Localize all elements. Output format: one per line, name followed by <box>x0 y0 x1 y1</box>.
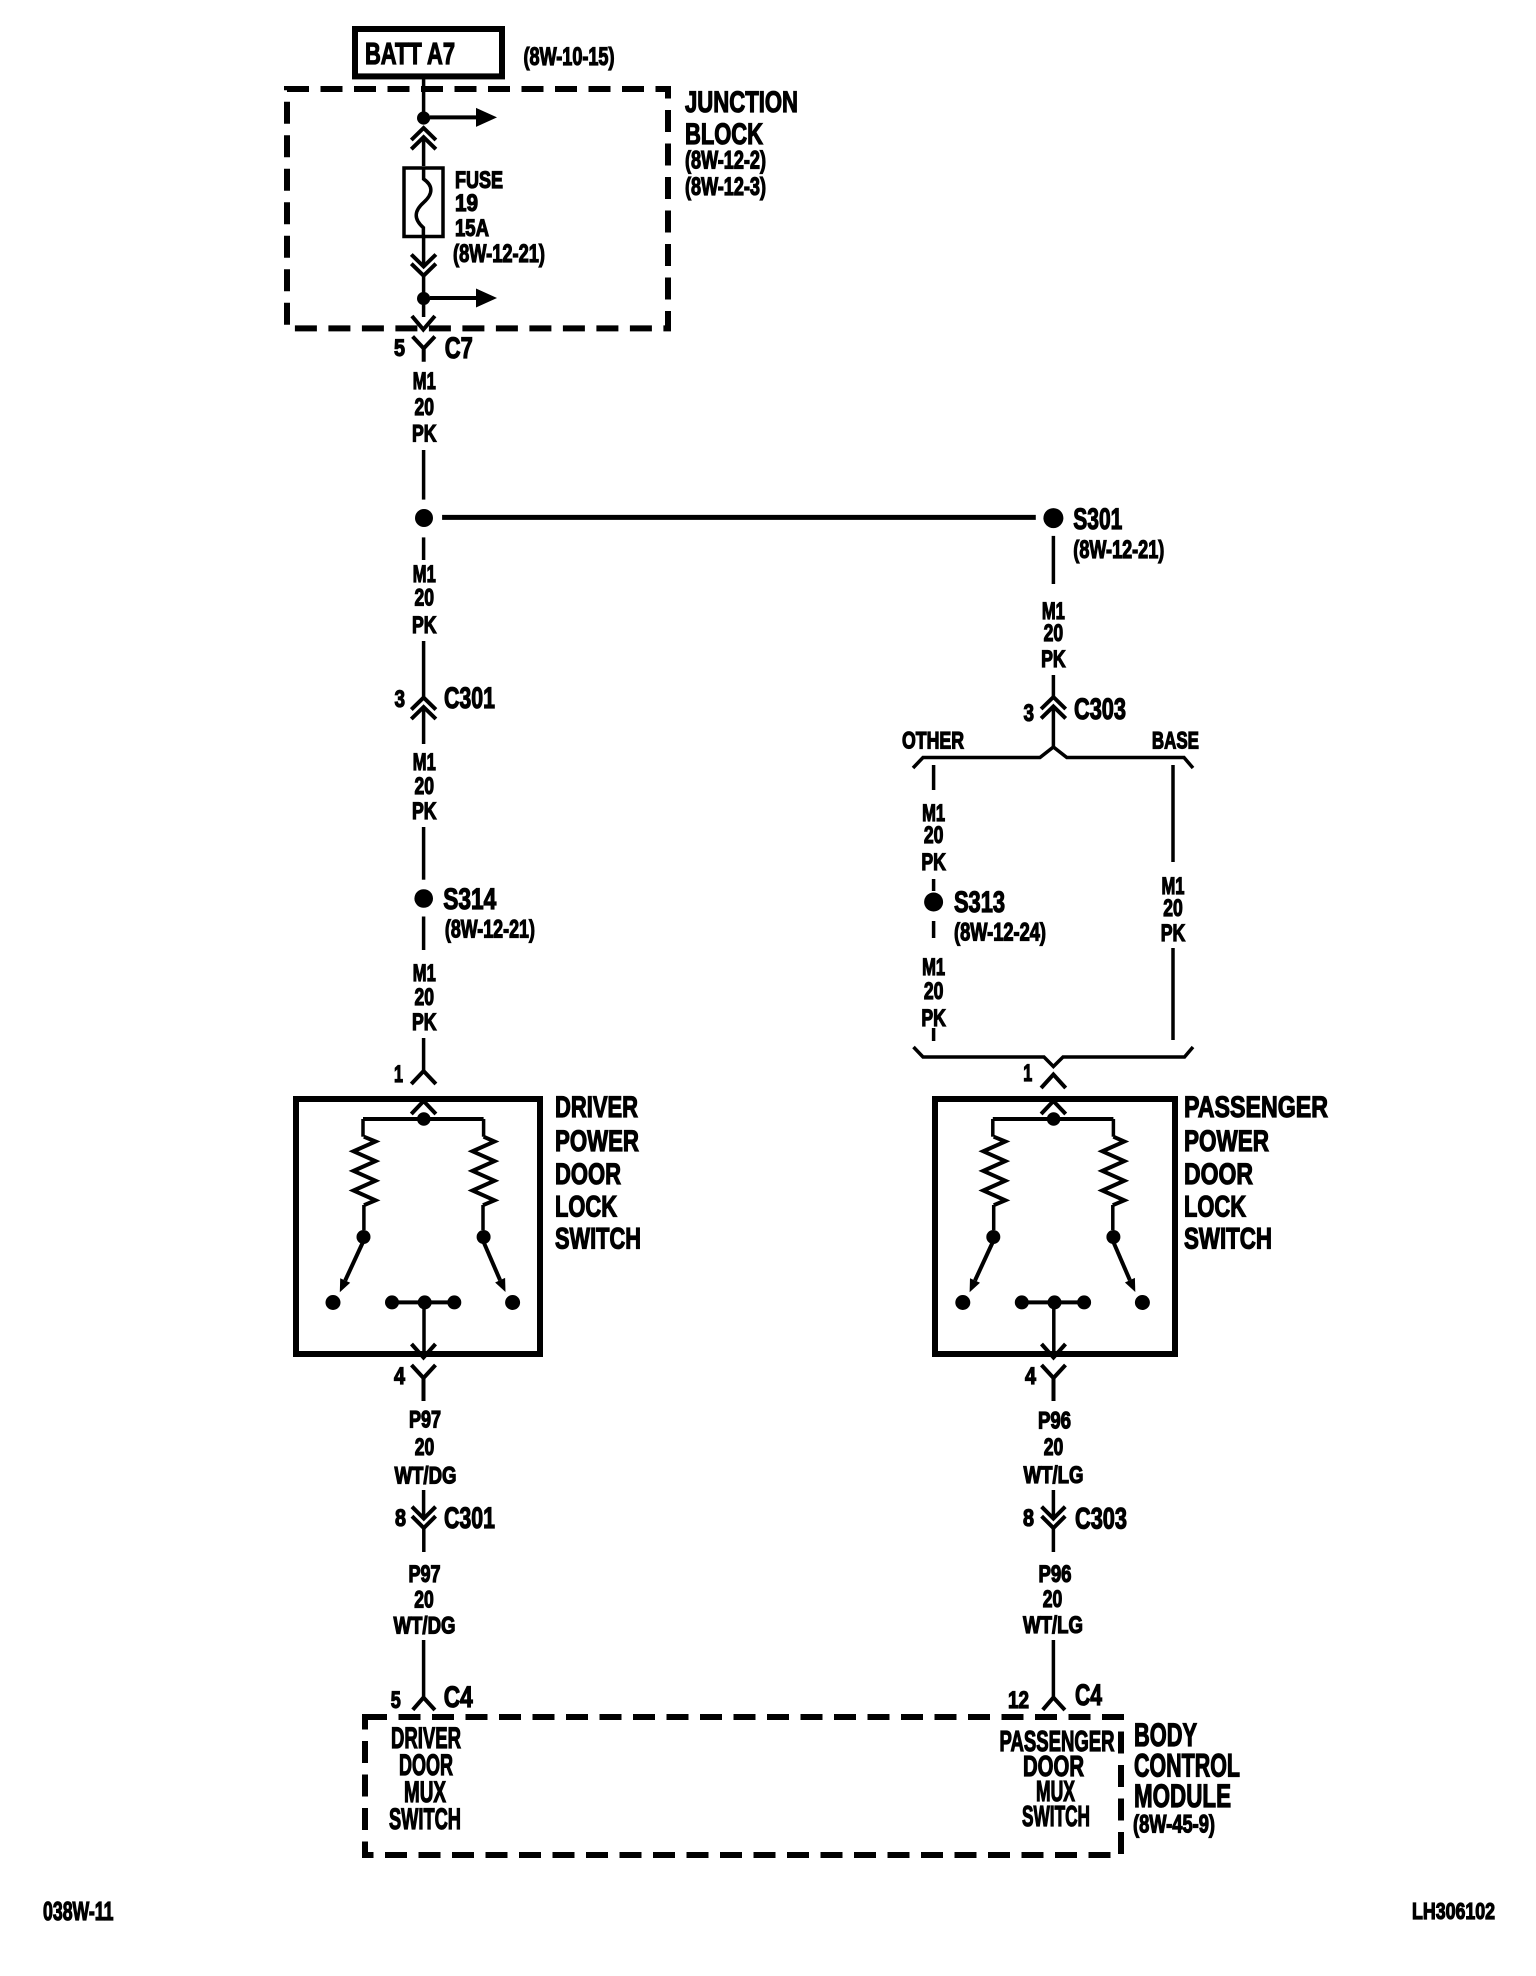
connector chevrons (double, up) below node <box>411 128 436 149</box>
wire OTHER branch segment 3 <box>932 921 936 938</box>
wire below S314 <box>422 917 426 951</box>
svg-text:(8W-10-15): (8W-10-15) <box>524 43 615 71</box>
svg-text:PASSENGER: PASSENGER <box>1184 1091 1328 1124</box>
resistor (driver unlock side) <box>473 1137 495 1206</box>
svg-text:(8W-45-9): (8W-45-9) <box>1133 1811 1215 1839</box>
junction splice dot at bus <box>415 509 433 527</box>
svg-text:20: 20 <box>415 585 435 612</box>
stationary contact dot far-left <box>955 1295 970 1310</box>
svg-text:C303: C303 <box>1074 693 1126 726</box>
svg-text:20: 20 <box>415 773 435 800</box>
connector C7 male half (V at box edge) <box>412 316 435 330</box>
wire to junction block exit <box>422 305 426 317</box>
stationary contact dot far-right <box>1135 1295 1150 1310</box>
wire joining center contacts <box>1022 1300 1084 1304</box>
connector C4 male half (passenger) <box>1043 1698 1065 1711</box>
battery feed box BATT A7 <box>355 29 502 76</box>
wire below C303 to options brace <box>1052 708 1056 749</box>
node dot (passenger switch common) <box>1047 1112 1061 1126</box>
connector pin 4 Y <box>1042 1365 1066 1401</box>
wire to C4 <box>422 1640 426 1698</box>
wire center contact to box bottom <box>422 1302 426 1354</box>
wire to fuse <box>422 137 426 166</box>
svg-text:P96: P96 <box>1039 1561 1072 1588</box>
wire P97 segment <box>422 1490 426 1518</box>
svg-text:DOOR: DOOR <box>555 1158 621 1191</box>
svg-text:PK: PK <box>921 849 946 876</box>
contact dot left <box>986 1230 1000 1244</box>
driver switch entry chevron (inside box) <box>411 1101 436 1114</box>
svg-text:SWITCH: SWITCH <box>555 1223 641 1256</box>
svg-text:DRIVER: DRIVER <box>555 1091 638 1124</box>
svg-text:PK: PK <box>921 1005 946 1032</box>
svg-text:S301: S301 <box>1073 503 1122 536</box>
wire to C301 <box>422 641 426 698</box>
passenger switch entry chevron (inside box) <box>1041 1101 1066 1114</box>
svg-text:20: 20 <box>1044 1434 1064 1461</box>
connector C303 chevrons (double, down) <box>1042 1507 1066 1528</box>
wire BATT A7 to node <box>422 79 426 112</box>
node dot (junction block feed) <box>417 111 430 124</box>
svg-text:C4: C4 <box>444 1681 473 1714</box>
wire right drop <box>482 1119 486 1137</box>
svg-text:M1: M1 <box>413 749 436 776</box>
svg-text:8: 8 <box>1023 1505 1034 1532</box>
svg-text:C7: C7 <box>445 332 473 365</box>
passenger power door lock switch box <box>935 1099 1175 1354</box>
fuse 19 body <box>404 168 443 237</box>
svg-text:20: 20 <box>415 394 435 421</box>
wire to left contact <box>362 1205 366 1230</box>
wire BASE branch lower <box>1171 948 1175 1040</box>
svg-text:WT/DG: WT/DG <box>395 1463 457 1490</box>
svg-text:SWITCH: SWITCH <box>389 1803 461 1836</box>
wire fuse to chevrons <box>422 238 426 265</box>
wire below C301 <box>422 709 426 744</box>
svg-text:P97: P97 <box>409 1561 441 1588</box>
svg-text:3: 3 <box>395 686 406 713</box>
svg-text:(8W-12-21): (8W-12-21) <box>1073 536 1164 564</box>
switch arm right (arrow) <box>484 1242 501 1280</box>
wire left drop <box>361 1119 365 1137</box>
svg-text:PK: PK <box>412 421 437 448</box>
contact dot right <box>477 1230 491 1244</box>
svg-text:WT/LG: WT/LG <box>1024 1462 1084 1489</box>
switch arm left (arrow) <box>975 1242 993 1281</box>
svg-text:BATT A7: BATT A7 <box>365 36 455 71</box>
body control module dashed box <box>365 1717 1121 1855</box>
svg-text:PK: PK <box>412 798 437 825</box>
wire below S301 <box>1052 536 1056 584</box>
svg-text:BASE: BASE <box>1152 728 1199 755</box>
wire center contact to box bottom <box>1052 1302 1056 1354</box>
wire left drop <box>991 1119 995 1137</box>
resistor (passenger lock side) <box>983 1137 1005 1206</box>
svg-text:M1: M1 <box>413 960 436 987</box>
svg-text:(8W-12-21): (8W-12-21) <box>445 916 535 944</box>
passenger switch entry chevron (outside) <box>1041 1075 1066 1089</box>
splice S313 dot <box>924 893 943 912</box>
svg-text:OTHER: OTHER <box>902 728 964 755</box>
svg-text:SWITCH: SWITCH <box>1022 1801 1090 1833</box>
stationary contact dot far-left <box>326 1295 341 1310</box>
splice S314 dot <box>414 889 433 908</box>
svg-text:(8W-12-3): (8W-12-3) <box>685 173 766 201</box>
svg-text:20: 20 <box>1163 895 1183 922</box>
svg-text:20: 20 <box>924 978 944 1005</box>
wire BASE branch upper <box>1171 765 1175 862</box>
svg-text:C303: C303 <box>1075 1503 1127 1536</box>
wire to left contact <box>992 1205 996 1230</box>
svg-text:PK: PK <box>1041 646 1066 673</box>
switch arm right (arrow) <box>1113 1242 1130 1280</box>
splice S301 dot <box>1043 508 1063 528</box>
svg-text:038W-11: 038W-11 <box>43 1896 114 1926</box>
svg-text:20: 20 <box>1044 620 1064 647</box>
svg-text:DOOR: DOOR <box>1184 1158 1253 1191</box>
node dot (driver switch common) <box>417 1112 431 1126</box>
svg-text:PK: PK <box>1161 920 1186 947</box>
svg-text:(8W-12-21): (8W-12-21) <box>453 240 545 268</box>
svg-text:20: 20 <box>1043 1586 1063 1613</box>
wire OTHER branch segment 2 <box>932 879 936 891</box>
node dot (fuse output) <box>417 292 430 305</box>
svg-text:4: 4 <box>394 1363 406 1390</box>
driver switch entry chevron (outside) <box>411 1071 436 1084</box>
connector C303 chevrons (double, up) <box>1041 697 1066 718</box>
switch arm left (arrow) <box>345 1242 363 1281</box>
options brace top <box>913 747 1193 768</box>
svg-text:WT/DG: WT/DG <box>394 1613 456 1640</box>
svg-text:20: 20 <box>415 1434 435 1461</box>
wire OTHER branch segment 4 <box>932 1028 936 1041</box>
wire joining center contacts <box>392 1300 454 1304</box>
svg-text:1: 1 <box>394 1061 403 1088</box>
connector chevrons (double, down) <box>411 255 436 276</box>
wire right drop <box>1112 1119 1116 1137</box>
svg-text:(8W-12-24): (8W-12-24) <box>954 919 1046 947</box>
svg-text:LOCK: LOCK <box>555 1191 617 1224</box>
connector C7 female half (Y) <box>413 337 435 362</box>
svg-text:P97: P97 <box>409 1407 441 1434</box>
connector pin 4 V (at box edge) <box>412 1344 436 1358</box>
stationary contact dots center row <box>1015 1295 1029 1309</box>
arrow to other circuits (bottom) <box>430 296 477 300</box>
svg-text:SWITCH: SWITCH <box>1184 1223 1272 1256</box>
wire to S314 <box>422 827 426 880</box>
driver power door lock switch box <box>296 1099 540 1354</box>
svg-text:C4: C4 <box>1075 1679 1102 1712</box>
svg-text:PK: PK <box>412 1009 437 1036</box>
svg-text:20: 20 <box>415 984 435 1011</box>
wire to lower node <box>422 276 426 292</box>
connector pin 4 V (at box edge) <box>1042 1344 1066 1358</box>
svg-text:19: 19 <box>455 190 478 217</box>
svg-text:8: 8 <box>395 1505 406 1532</box>
contact dot left <box>357 1230 371 1244</box>
svg-text:15A: 15A <box>455 215 489 242</box>
wire to right contact <box>481 1205 485 1230</box>
resistor (driver lock side) <box>354 1137 376 1206</box>
wire below C301 <box>422 1528 426 1552</box>
contact dot right <box>1106 1230 1120 1244</box>
svg-text:S314: S314 <box>443 883 496 916</box>
wire below C303 <box>1052 1528 1056 1552</box>
arrow to other circuits (top) <box>430 115 477 119</box>
svg-text:MODULE: MODULE <box>1134 1778 1231 1814</box>
wire to C4 <box>1052 1640 1056 1698</box>
wire to driver switch <box>422 1038 426 1070</box>
svg-text:LH306102: LH306102 <box>1412 1898 1495 1924</box>
fuse element squiggle <box>416 168 431 238</box>
svg-text:POWER: POWER <box>1184 1125 1269 1158</box>
connector C4 male half <box>413 1698 435 1711</box>
svg-text:5: 5 <box>391 1687 401 1714</box>
svg-text:C301: C301 <box>444 682 495 715</box>
wire below junction dot <box>422 537 426 560</box>
wire horizontal bus to S301 <box>442 515 1036 520</box>
junction block dashed box <box>287 89 668 328</box>
wire internal top rail <box>993 1117 1114 1121</box>
wire M1 20 PK segment (below C7) <box>422 450 426 500</box>
svg-text:M1: M1 <box>922 954 945 981</box>
svg-text:WT/LG: WT/LG <box>1023 1612 1083 1639</box>
svg-text:JUNCTION: JUNCTION <box>685 86 798 119</box>
wire OTHER branch (dashed) segment 1 <box>932 765 936 790</box>
svg-text:S313: S313 <box>954 886 1005 919</box>
wire to C303 <box>1052 675 1056 697</box>
stationary contact dots center row <box>385 1295 399 1309</box>
svg-text:PK: PK <box>412 612 437 639</box>
options brace bottom <box>914 1047 1194 1067</box>
connector C301 chevrons (double, down) <box>412 1507 436 1528</box>
connector pin 4 Y <box>412 1365 436 1401</box>
stationary contact dot far-right <box>505 1295 520 1310</box>
svg-text:P96: P96 <box>1038 1408 1071 1435</box>
wire internal top rail <box>363 1117 484 1121</box>
svg-text:(8W-12-2): (8W-12-2) <box>685 147 766 175</box>
svg-text:20: 20 <box>414 1587 434 1614</box>
svg-text:12: 12 <box>1008 1687 1029 1714</box>
svg-text:POWER: POWER <box>555 1125 639 1158</box>
svg-text:3: 3 <box>1024 700 1035 727</box>
svg-text:LOCK: LOCK <box>1184 1191 1246 1224</box>
resistor (passenger unlock side) <box>1102 1137 1124 1206</box>
svg-text:1: 1 <box>1023 1060 1032 1087</box>
wire P96 segment <box>1052 1490 1056 1518</box>
svg-text:C301: C301 <box>444 1502 495 1535</box>
svg-text:5: 5 <box>394 335 405 362</box>
connector C301 chevrons (double, up) <box>411 698 436 719</box>
svg-text:M1: M1 <box>413 368 436 395</box>
svg-text:20: 20 <box>924 822 944 849</box>
wire to right contact <box>1111 1205 1115 1230</box>
svg-text:4: 4 <box>1025 1363 1037 1390</box>
